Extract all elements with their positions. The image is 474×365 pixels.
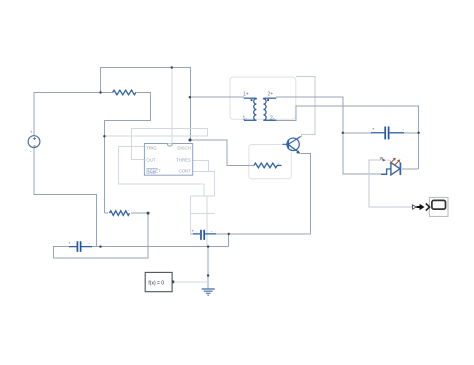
transistor Q1: [283, 137, 301, 154]
wire C1 right lead: [81, 246, 101, 248]
op-amp U1 555 notch: [167, 144, 172, 147]
svg-text:DISCH: DISCH: [177, 145, 190, 150]
block border transformer T1: [230, 77, 296, 119]
node VCC junction: [171, 66, 173, 68]
op-amp U1 555 timer body: [144, 144, 192, 176]
wire transformer secondary top to C3 and LED anode: [276, 97, 386, 174]
wire ground rail: [97, 246, 229, 248]
capacitor C1: [69, 241, 92, 252]
node R2 corner junction: [147, 212, 150, 215]
wire top rail: [101, 68, 191, 141]
node D5 junction: [103, 135, 105, 137]
polarity dot winding 2: [267, 99, 269, 101]
ground: [202, 289, 215, 295]
LED D1 light arrow 2: [394, 159, 400, 165]
LED D1 light arrow 1: [390, 158, 396, 164]
voltage source V1: [28, 136, 40, 148]
scope input chevron: [426, 203, 430, 210]
wire R1 left lead: [101, 92, 113, 94]
svg-text:1-: 1-: [243, 115, 248, 121]
svg-text:1+: 1+: [243, 91, 249, 97]
wire R3 right lead: [277, 164, 282, 166]
polarity dot winding 1: [251, 99, 253, 101]
wire ground drop: [207, 247, 209, 289]
wire lower faint link: [191, 212, 215, 214]
transformer T1 winding 2: [263, 98, 276, 120]
solver config block f(x)=0: [145, 272, 172, 291]
solver port: [172, 281, 174, 284]
wire C2 top feed: [190, 196, 192, 234]
scope input solid arrow: [417, 204, 425, 210]
LED D1: [381, 162, 400, 175]
node primary junction: [189, 96, 191, 98]
svg-text:CONT: CONT: [179, 169, 192, 174]
wire LED cathode lead: [402, 168, 419, 170]
wire VCC drop to U1: [171, 68, 173, 144]
wire R2 right down to C1 left: [53, 213, 148, 258]
resistor R3: [254, 163, 277, 168]
svg-text:f(x) = 0: f(x) = 0: [148, 280, 164, 286]
wire LED signal port to scope: [369, 160, 413, 207]
wire C3 right lead: [390, 132, 418, 134]
wire R2 left lead: [104, 212, 108, 214]
wire U1 TRIG: [119, 147, 205, 197]
wire source top to node A: [34, 93, 101, 136]
node C3 left junction: [342, 132, 344, 134]
wire source bottom down: [34, 148, 97, 247]
wire solver to ground node: [174, 281, 208, 283]
transformer T1 winding 1: [244, 98, 257, 120]
capacitor C3: [371, 127, 404, 140]
node rail-ground junction: [207, 245, 209, 247]
wire U1 CONT: [193, 172, 215, 197]
wire emitter rail: [229, 154, 311, 234]
wire C3 left lead: [343, 132, 371, 134]
svg-text:2+: 2+: [268, 91, 274, 97]
wire R3 feed from node D4: [190, 140, 249, 165]
node A junction: [99, 91, 101, 93]
svg-text:+: +: [372, 128, 375, 133]
resistor R1: [113, 90, 136, 95]
svg-text:+: +: [68, 242, 71, 247]
wire U1 OUT: [131, 129, 207, 160]
node D4 junction: [189, 139, 192, 142]
resistor R2: [110, 211, 130, 216]
block border resistor R3: [249, 145, 291, 179]
wire C2 right corner: [228, 234, 230, 247]
wire R3 left lead: [249, 164, 254, 166]
wire collector hook: [296, 77, 315, 137]
wire R1 right to R2 left: [104, 93, 150, 214]
wire secondary bottom to right column: [276, 106, 418, 169]
svg-text:OUT: OUT: [146, 157, 155, 162]
scope input open arrow: [413, 205, 417, 209]
node ground-solver junction: [207, 274, 209, 276]
wire U1 THRES: [193, 160, 209, 171]
wire C2 left lead: [191, 233, 201, 235]
node C2 junction: [228, 233, 230, 235]
wire U1 GND to rail: [206, 196, 208, 246]
wire node D5 horizontal: [104, 135, 207, 137]
wire C2 right lead: [205, 233, 229, 235]
wire transformer primary feed: [191, 96, 244, 98]
svg-text:2-: 2-: [270, 115, 275, 121]
node C1 junction: [99, 245, 101, 247]
wire U1 GND lower loop: [191, 195, 215, 197]
LED D1 signal port: [380, 157, 391, 162]
svg-text:TRIG: TRIG: [146, 145, 157, 150]
node C3 right junction: [417, 132, 419, 134]
svg-text:+: +: [30, 131, 33, 136]
svg-text:THRES: THRES: [176, 157, 191, 162]
svg-text:RESET: RESET: [146, 169, 161, 174]
svg-text:+: +: [191, 229, 194, 234]
scope block: [429, 197, 448, 216]
capacitor C2: [193, 230, 216, 240]
